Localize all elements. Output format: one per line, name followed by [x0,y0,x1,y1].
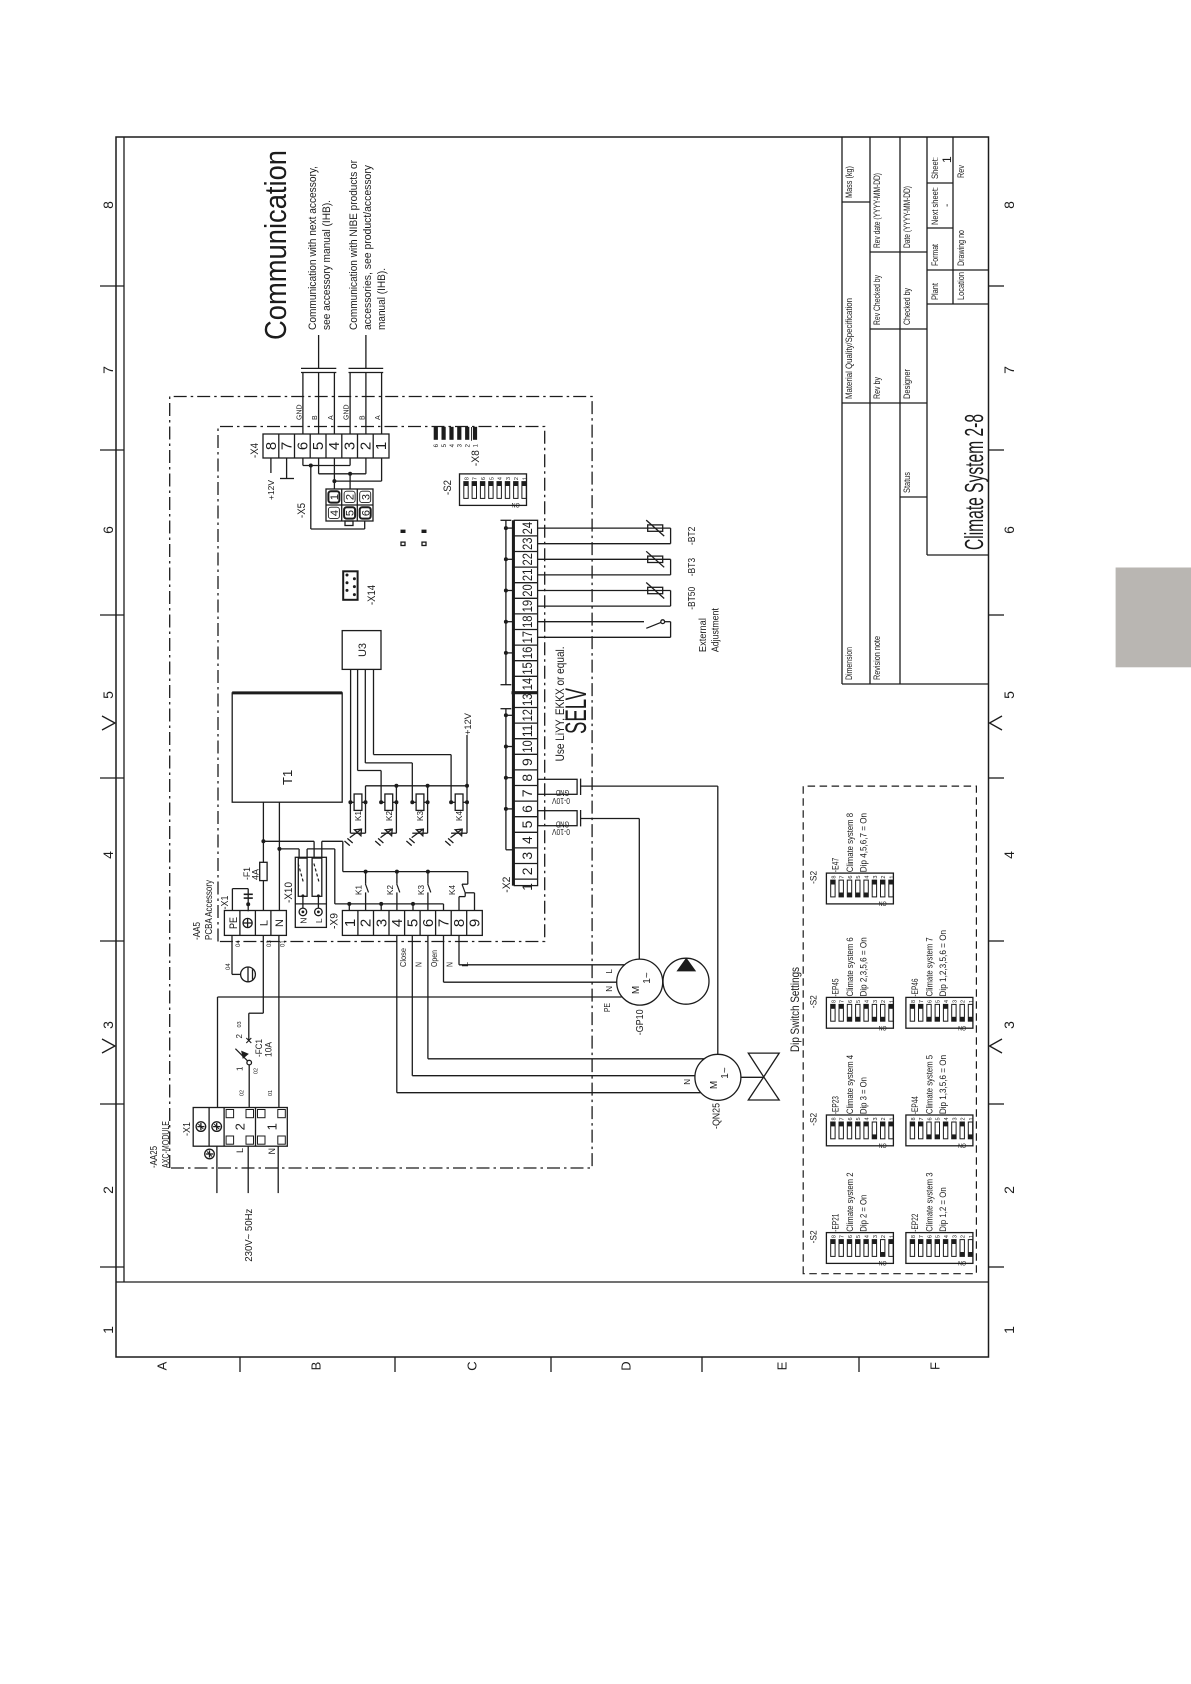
wire T1 to L node [261,802,265,843]
wire N node to X10 upper pole [279,849,299,858]
svg-text:3: 3 [873,1000,879,1003]
IC U3 [342,631,381,670]
svg-text:8: 8 [263,442,280,450]
dip switch E47 [809,813,896,907]
svg-text:-X4: -X4 [249,443,261,458]
svg-text:K4: K4 [455,810,464,821]
svg-text:2: 2 [514,477,520,480]
svg-text:6: 6 [848,1000,854,1003]
svg-text:5: 5 [936,1235,942,1238]
svg-text:10: 10 [519,740,535,753]
svg-text:-EP45: -EP45 [830,979,840,997]
svg-text:Climate system 4: Climate system 4 [845,1055,855,1114]
svg-text:3: 3 [952,1000,958,1003]
relay contact K2 [386,872,400,911]
svg-text:Climate system 5: Climate system 5 [924,1055,934,1114]
svg-text:17: 17 [519,631,535,644]
svg-text:Dip 2 = On: Dip 2 = On [858,1195,868,1232]
title block labels [844,156,966,680]
svg-text:5: 5 [100,691,116,699]
connector X14 [343,571,357,600]
svg-text:L: L [259,920,271,926]
svg-text:3: 3 [952,1235,958,1238]
svg-text:Climate system 8: Climate system 8 [845,813,855,872]
svg-text:3: 3 [952,1117,958,1120]
svg-text:3: 3 [100,1021,116,1029]
X2 even-terminal common bus upper [501,520,515,684]
svg-text:7: 7 [435,919,452,927]
svg-text:18: 18 [519,615,535,628]
svg-text:Mass (kg): Mass (kg) [844,166,854,198]
svg-text:4: 4 [519,836,535,844]
svg-text:-X2: -X2 [501,877,513,893]
svg-text:6: 6 [848,1235,854,1238]
X4 label [249,443,261,458]
svg-text:6: 6 [848,876,854,879]
wire cable 2 to note 2 [365,335,367,368]
PE wire with suppression capacitor [232,889,252,912]
svg-text:1: 1 [236,1066,245,1071]
svg-text:6: 6 [848,1117,854,1120]
0-10V output 2 (GP10) [538,810,640,959]
SELV note Use LiYY EKKX or equal [553,646,567,761]
frame zone ticks and numbers top [100,201,124,1334]
dip switch EP46 [906,930,975,1031]
svg-text:8: 8 [831,1235,837,1238]
svg-text:23: 23 [519,537,535,550]
svg-text:-S2: -S2 [442,480,454,495]
svg-text:K1: K1 [354,810,363,821]
svg-text:Adjustment: Adjustment [711,608,722,652]
svg-text:2: 2 [345,494,357,500]
svg-text:5: 5 [404,919,421,927]
svg-text:N: N [605,986,614,992]
svg-text:Climate system 6: Climate system 6 [845,937,855,996]
svg-text:K4: K4 [448,884,457,895]
svg-text:1: 1 [523,477,529,480]
wire number 03 [267,940,273,947]
svg-text:0-10V: 0-10V [551,796,570,805]
temperature sensor -BT2 [538,520,698,545]
svg-text:GND: GND [556,819,570,828]
dip switch settings title [788,967,802,1052]
gray side tab [1116,568,1191,668]
svg-text:-EP21: -EP21 [830,1214,840,1232]
svg-text:N: N [683,1079,692,1085]
circuit breaker FC1 [235,1038,251,1108]
PE wire AA25-X1 earth to GP10 [218,997,622,1108]
svg-text:11: 11 [519,724,535,737]
external adjustment label [698,608,722,652]
FC1 labels [254,1039,274,1057]
svg-text:7: 7 [473,477,479,480]
relay coil K3 [406,786,429,846]
svg-text:Drawing no: Drawing no [956,230,966,266]
svg-text:-EP44: -EP44 [910,1096,920,1114]
svg-text:6: 6 [519,805,535,813]
svg-text:1: 1 [969,1117,975,1120]
svg-text:-X1: -X1 [220,895,231,909]
relay contact bus [343,870,468,874]
svg-text:5: 5 [856,1000,862,1003]
svg-text:2: 2 [881,1000,887,1003]
svg-text:2: 2 [881,1235,887,1238]
dip switch EP23 [809,1055,896,1149]
svg-text:+12V: +12V [463,713,473,735]
svg-text:-E47: -E47 [830,858,840,872]
svg-text:1: 1 [889,1235,895,1238]
svg-text:2: 2 [961,1117,967,1120]
svg-text:-S2: -S2 [809,871,819,884]
X9 odd terminal bus from X10 [335,902,444,911]
relay coil K4 [445,786,469,846]
svg-text:-QN25: -QN25 [712,1103,723,1129]
title text Climate System 2-8 [959,414,989,550]
wire L from X1 AA5 to FC1 [249,935,263,1040]
svg-text:ON: ON [878,1024,886,1031]
terminal block X1 on AA25 [193,1108,287,1147]
relay coil K2 [375,786,398,846]
FC1 pin labels [235,1021,260,1074]
svg-text:accessories, see product/acces: accessories, see product/accessory [362,165,374,330]
svg-text:6: 6 [927,1000,933,1003]
L N labels at X1 AA25 [235,1148,277,1155]
supply label 230V 50Hz [244,1209,255,1262]
X9 output labels [399,947,470,967]
supply stubs 230V [217,1146,278,1193]
svg-text:1: 1 [519,883,535,891]
svg-text:04: 04 [226,963,232,970]
temperature sensor -BT3 [538,551,698,576]
svg-text:-EP23: -EP23 [830,1096,840,1114]
external adjustment contact [538,620,671,638]
svg-text:4: 4 [865,1117,871,1120]
svg-text:see accessory manual (IHB).: see accessory manual (IHB). [321,200,333,330]
svg-text:Dip 4,5,6,7 = On: Dip 4,5,6,7 = On [858,813,868,872]
communication note 1 [307,166,333,330]
svg-text:Rev: Rev [956,165,966,178]
X4 pin labels GND B A [297,404,383,420]
svg-text:T1: T1 [280,770,295,785]
svg-text:5: 5 [856,1117,862,1120]
svg-text:7: 7 [840,1000,846,1003]
svg-text:-BT2: -BT2 [687,526,698,545]
wire X4 4+1 to X5 pin1 [332,479,381,489]
svg-text:-EP46: -EP46 [910,979,920,997]
svg-text:U3: U3 [357,643,369,657]
wire X9-4 to QN25 close [397,935,701,1092]
frame zone ticks and numbers bottom [989,201,1018,1334]
svg-text:20: 20 [519,584,535,597]
svg-text:3: 3 [360,494,372,500]
AA5 PCB boundary (dash-dot) [218,427,545,942]
svg-text:13: 13 [519,693,535,706]
svg-text:Communication with next access: Communication with next accessory, [307,166,319,330]
svg-text:8: 8 [911,1235,917,1238]
wire X9-6 to QN25 open [428,935,704,1058]
svg-text:1: 1 [889,1117,895,1120]
svg-text:Plant: Plant [930,283,940,300]
svg-text:8: 8 [451,919,468,927]
AA5 PCB label [192,880,215,940]
svg-text:1: 1 [969,1235,975,1238]
svg-text:3: 3 [1001,1021,1017,1029]
svg-text:4: 4 [865,1000,871,1003]
svg-text:-BT3: -BT3 [687,558,698,577]
X10 label [283,882,295,903]
svg-text:-: - [942,204,953,207]
QN25 N label [683,1079,692,1085]
svg-text:0-10V: 0-10V [551,827,570,836]
wire X4 6+3 to X5 pin6 [303,464,365,530]
svg-text:9: 9 [519,758,535,766]
svg-text:6: 6 [360,510,372,516]
svg-text:6: 6 [294,442,311,450]
svg-text:-X1: -X1 [182,1122,193,1136]
+12V bus for relay coils [366,735,470,788]
wire N node to X1 [278,849,280,911]
dip switch S2 on PCB [460,474,529,508]
svg-text:4: 4 [326,442,343,450]
svg-text:Climate system 2: Climate system 2 [845,1173,855,1232]
svg-text:D: D [619,1361,634,1370]
svg-text:Material Quality/Specification: Material Quality/Specification [844,298,854,399]
svg-text:Dimension: Dimension [844,647,854,680]
svg-text:2: 2 [357,442,374,450]
svg-text:-FC1: -FC1 [254,1039,264,1057]
svg-text:Date (YYYY-MM-DD): Date (YYYY-MM-DD) [902,186,912,248]
svg-text:K1: K1 [355,884,364,895]
transformer T1 [232,693,342,802]
dip switch settings dashed box [803,786,976,1274]
dip switch EP21 [809,1173,896,1267]
svg-text:N: N [267,1148,277,1155]
svg-text:4: 4 [389,919,406,927]
svg-text:6: 6 [100,526,116,534]
svg-text:01: 01 [281,940,287,947]
svg-text:1: 1 [1001,1326,1017,1334]
svg-text:1~: 1~ [720,1067,731,1079]
wire cable 1 to note 1 [318,335,320,368]
wire number 01 [281,940,287,947]
svg-text:-X9: -X9 [329,913,341,929]
wires U3 outputs [351,669,452,802]
pump GP10 motor [617,959,663,1005]
svg-text:4: 4 [100,851,116,859]
switch X10 [295,857,326,927]
svg-text:Open: Open [430,950,439,967]
svg-text:15: 15 [519,662,535,675]
svg-text:3: 3 [519,852,535,860]
svg-text:5: 5 [936,1000,942,1003]
svg-text:3: 3 [873,1117,879,1120]
svg-text:2: 2 [881,1117,887,1120]
wire numbers at X1 AA25 [240,1090,275,1096]
svg-text:16: 16 [519,646,535,659]
svg-text:2: 2 [358,919,375,927]
svg-text:4: 4 [944,1000,950,1003]
svg-text:1~: 1~ [642,972,653,984]
drawing frame border [116,137,989,1357]
valve body QN25 [741,1053,779,1100]
svg-text:5: 5 [856,876,862,879]
svg-text:2: 2 [881,876,887,879]
AA25 module boundary (dash-dot) [170,397,592,1169]
svg-text:Dip 2,3,5,6 = On: Dip 2,3,5,6 = On [858,937,868,996]
svg-text:-S2: -S2 [809,1113,819,1126]
earth symbol below X1 AA25 [205,1149,215,1159]
svg-text:8: 8 [464,477,470,480]
communication title [258,150,293,340]
svg-text:2: 2 [100,1186,116,1194]
svg-text:7: 7 [519,789,535,797]
svg-text:7: 7 [840,1235,846,1238]
svg-text:ON: ON [511,501,519,508]
svg-text:3: 3 [873,876,879,879]
svg-text:6: 6 [420,919,437,927]
svg-text:Status: Status [902,472,912,493]
terminal strip X2 [512,520,538,890]
svg-text:Dip Switch Settings: Dip Switch Settings [788,967,802,1052]
svg-text:-AA25: -AA25 [149,1146,160,1168]
cable bundle symbol 2 [349,368,384,372]
svg-text:10A: 10A [264,1042,274,1057]
svg-text:1: 1 [342,919,359,927]
pump GP10 impeller [663,958,709,1004]
svg-text:7: 7 [1001,366,1017,374]
svg-text:-BT50: -BT50 [687,586,698,609]
svg-text:Dip 3 = On: Dip 3 = On [858,1077,868,1114]
svg-text:2: 2 [961,1000,967,1003]
X4 left stubs to X5 routing [303,458,382,481]
svg-text:N: N [445,962,454,967]
svg-text:2: 2 [233,1123,248,1130]
svg-text:1: 1 [940,156,954,163]
svg-text:1: 1 [373,442,390,450]
svg-text:Sheet:: Sheet: [930,157,940,179]
svg-text:1: 1 [329,494,341,500]
svg-text:Dip 1,3,5,6 = On: Dip 1,3,5,6 = On [938,1055,948,1114]
earth electrode symbol [232,935,255,981]
svg-text:ON: ON [878,1142,886,1149]
svg-text:Next sheet:: Next sheet: [930,187,940,225]
svg-text:-AA5: -AA5 [192,922,203,940]
svg-text:8: 8 [1001,201,1017,209]
svg-text:+12V: +12V [267,479,276,500]
+12V label at relays [463,713,473,735]
svg-text:N: N [298,918,308,924]
GP10 wire labels L N PE [603,968,614,1012]
S2 label [442,480,454,495]
frame row ticks and letters left [155,1357,943,1372]
svg-text:5: 5 [936,1117,942,1120]
svg-text:8: 8 [100,201,116,209]
svg-text:B: B [309,1362,324,1371]
svg-text:1: 1 [100,1326,116,1334]
svg-text:Location: Location [956,272,966,300]
QN25 label [712,1103,723,1129]
svg-text:6: 6 [927,1235,933,1238]
wire T1 to N node [277,802,281,851]
GP10 label [635,1009,646,1035]
svg-text:7: 7 [100,366,116,374]
svg-text:5: 5 [310,442,327,450]
wire X4 5+2 to X5 pin2 [319,472,366,489]
X2 even-terminal common bus lower [501,709,515,850]
svg-text:Designer: Designer [902,369,912,399]
svg-text:2: 2 [961,1235,967,1238]
svg-text:8: 8 [831,1117,837,1120]
svg-text:7: 7 [279,442,296,450]
svg-text:ON: ON [958,1259,966,1266]
svg-text:7: 7 [840,1117,846,1120]
svg-text:8: 8 [911,1000,917,1003]
svg-text:AXC-MODULE: AXC-MODULE [161,1121,172,1168]
svg-text:Communication with NIBE produc: Communication with NIBE products or [348,160,360,330]
svg-text:4: 4 [1001,851,1017,859]
svg-text:L: L [314,918,324,923]
X1 AA5 label [220,895,231,909]
svg-text:4A: 4A [251,869,261,880]
F1 label [242,867,261,880]
svg-text:1: 1 [889,1000,895,1003]
dip switch EP22 [906,1173,975,1267]
wire X9-5 to QN25 N [412,935,695,1075]
wire X4 pin8 to +12V [270,458,272,473]
svg-text:6: 6 [1001,526,1017,534]
svg-text:manual (IHB).: manual (IHB). [376,268,388,330]
svg-text:4: 4 [865,876,871,879]
dip switch EP45 [809,937,896,1031]
relay contact K3 [417,872,431,911]
SELV label [560,688,593,734]
svg-text:-S2: -S2 [809,1230,819,1243]
relay contact K1 [355,872,369,911]
svg-text:Communication: Communication [258,150,293,340]
svg-text:ON: ON [958,1142,966,1149]
svg-text:Climate system 3: Climate system 3 [924,1173,934,1232]
svg-text:-X10: -X10 [283,882,295,903]
svg-text:ON: ON [958,1024,966,1031]
svg-text:Dip 1,2,3,5,6 = On: Dip 1,2,3,5,6 = On [938,930,948,997]
continuation marks [401,530,427,546]
svg-text:04: 04 [236,940,242,947]
svg-text:-GP10: -GP10 [635,1009,646,1035]
svg-text:Climate system 7: Climate system 7 [924,937,934,996]
wire X9-8 to GP10 L [459,935,625,964]
svg-text:01: 01 [268,1090,274,1096]
relay contact K4 [448,872,475,911]
svg-text:GND: GND [556,788,570,797]
terminal block X4 [263,434,390,458]
0-10V output 1 (QN25) [538,779,718,1055]
svg-text:5: 5 [345,510,357,516]
fuse F1 [260,841,267,910]
svg-text:5: 5 [1001,691,1017,699]
AA25 module label [149,1121,172,1168]
wire X10 lower pole out to contact bus [322,841,343,871]
svg-text:6: 6 [481,477,487,480]
svg-text:230V~ 50Hz: 230V~ 50Hz [244,1209,255,1262]
svg-text:K2: K2 [385,810,394,821]
svg-text:4: 4 [498,477,504,480]
svg-text:02: 02 [254,1068,260,1074]
dip switch EP44 [906,1055,975,1149]
svg-text:M: M [631,986,642,994]
svg-text:-X14: -X14 [366,585,378,605]
svg-text:22: 22 [519,553,535,566]
X5 label [296,503,308,518]
